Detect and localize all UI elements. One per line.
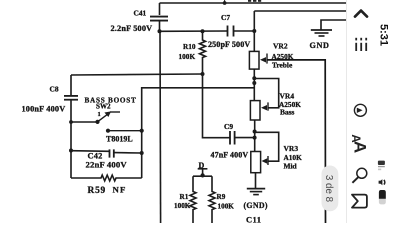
- svg-text:C41: C41: [134, 8, 147, 17]
- resistor R1 100K: [174, 176, 196, 223]
- page edge: [346, 0, 348, 223]
- svg-text:VR2: VR2: [273, 41, 288, 50]
- node VR4 bottom junctions: [253, 130, 257, 140]
- wire VR3 wiper loop: [255, 132, 279, 161]
- wire VR4 wiper loop: [254, 79, 278, 108]
- svg-text:T8019L: T8019L: [106, 135, 133, 144]
- resistor R9 100K: [209, 176, 234, 223]
- node VR2 bottom junctions: [252, 76, 256, 85]
- ground GND mid: [244, 189, 268, 210]
- node R10 top junction: [201, 29, 205, 33]
- potentiometer VR3 A10K Mid: [251, 144, 302, 173]
- ground GND top: [310, 30, 333, 50]
- node C7 right junction: [252, 29, 256, 33]
- node D: [193, 161, 212, 178]
- node R10 bottom junction: [201, 72, 205, 76]
- svg-text:R59: R59: [88, 186, 107, 196]
- wire second top rail: [254, 10, 346, 12]
- label C11: [246, 215, 261, 225]
- wire VR3 bottom to ground: [255, 173, 257, 188]
- svg-text:R1: R1: [180, 193, 189, 201]
- wire row to C7: [160, 30, 228, 32]
- svg-text:(GND): (GND): [244, 201, 268, 210]
- svg-text:100nF 400V: 100nF 400V: [22, 104, 66, 113]
- node C8 switch junction: [69, 149, 73, 153]
- cropped label at top edge: [248, 0, 261, 2]
- capacitor C41: [111, 3, 169, 33]
- svg-text:NF: NF: [113, 184, 127, 194]
- wire mid row to VR2 bottom: [142, 88, 255, 178]
- wire C7 node up to rail: [253, 11, 255, 31]
- ui bookmark icon: [352, 195, 367, 208]
- resistor R10 100K: [179, 31, 206, 74]
- resistor R59 NF: [71, 175, 142, 196]
- ui status signal: [378, 161, 385, 170]
- svg-text:22nF 400V: 22nF 400V: [86, 160, 128, 170]
- svg-text:C11: C11: [246, 215, 261, 224]
- ui status battery: [379, 190, 386, 204]
- page indicator pill 3 de 8: [322, 166, 339, 212]
- ui chevron collapse: [355, 11, 367, 17]
- svg-text:Treble: Treble: [272, 60, 293, 69]
- node junction on top rail: [223, 0, 227, 5]
- svg-text:C8: C8: [50, 84, 59, 93]
- svg-text:R10: R10: [183, 42, 196, 51]
- svg-text:100K: 100K: [179, 52, 196, 61]
- wire long vertical from C41 node: [159, 31, 162, 223]
- capacitor C7: [208, 13, 254, 49]
- ui rotate icon: [354, 104, 366, 116]
- potentiometer VR2 A250K Treble: [249, 41, 293, 100]
- ui text size AA: [349, 134, 370, 153]
- svg-text:VR3: VR3: [284, 144, 299, 153]
- svg-text:C7: C7: [221, 13, 230, 22]
- potentiometer VR4 A250K Bass: [250, 92, 301, 152]
- svg-text:C9: C9: [224, 122, 233, 131]
- wire slope row from C8 to R10: [71, 74, 203, 75]
- capacitor C8: [22, 75, 79, 178]
- svg-text:5:31: 5:31: [377, 24, 389, 46]
- svg-text:R9: R9: [217, 193, 226, 201]
- capacitor C42: [71, 149, 144, 169]
- svg-text:100K: 100K: [174, 202, 191, 210]
- wire top rail from C41: [160, 2, 347, 4]
- svg-text:100K: 100K: [218, 202, 235, 210]
- ui search icon: [352, 168, 366, 183]
- capacitor C9: [203, 74, 255, 159]
- ui clock 5:31: [377, 24, 389, 46]
- svg-text:Bass: Bass: [280, 108, 295, 117]
- switch SW2 bass boost: [69, 96, 144, 132]
- svg-text:47nF 400V: 47nF 400V: [211, 150, 249, 159]
- svg-text:GND: GND: [310, 41, 330, 50]
- svg-text:Mid: Mid: [284, 161, 298, 170]
- svg-text:SW2: SW2: [96, 103, 111, 111]
- svg-text:1: 1: [98, 111, 101, 118]
- wire VR2 wiper output bus: [267, 60, 326, 223]
- ui contents icon: [356, 38, 366, 51]
- wire C7 node down to VR2: [253, 31, 255, 51]
- node C41 bottom junction: [158, 29, 162, 33]
- part label T8019L: [106, 135, 133, 144]
- svg-text:2.2nF 500V: 2.2nF 500V: [111, 24, 153, 33]
- wire to top ground: [321, 20, 346, 30]
- svg-text:A: A: [351, 141, 370, 153]
- ui status volume: [379, 179, 385, 185]
- svg-text:250pF 500V: 250pF 500V: [208, 40, 250, 49]
- svg-text:3 de 8: 3 de 8: [323, 175, 334, 203]
